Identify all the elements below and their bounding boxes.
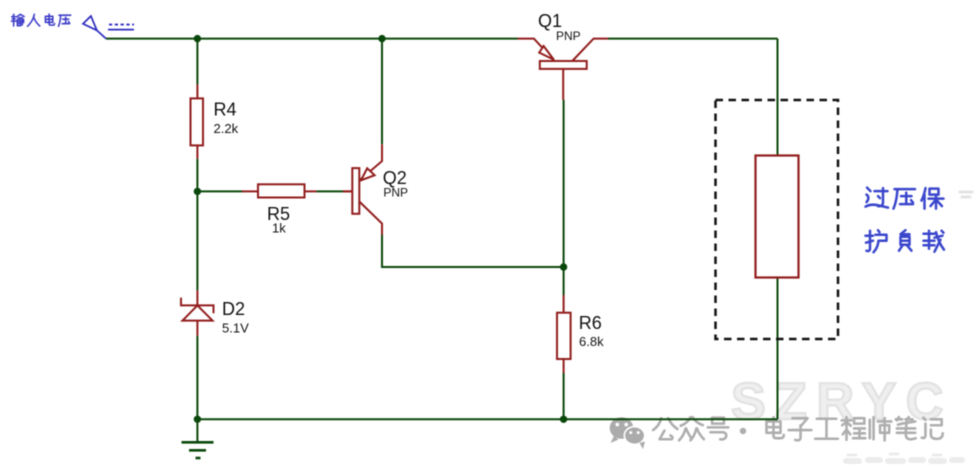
- resistor R5: [242, 184, 352, 197]
- wire R6 bottom: [563, 373, 565, 419]
- wire R5 right to Q2 base: [317, 190, 343, 192]
- svg-text:5.1V: 5.1V: [222, 321, 249, 336]
- ground: [182, 442, 214, 458]
- dashed load box: [716, 100, 839, 339]
- wire R4 bottom to node: [196, 159, 198, 192]
- transistor Q1: [518, 39, 608, 100]
- junction: R6 bottom / ground rail: [560, 416, 567, 423]
- wire Q1 base down: [563, 100, 565, 295]
- zener diode D2: [181, 290, 214, 335]
- wire load bottom: [777, 278, 779, 420]
- svg-text:R4: R4: [214, 100, 237, 120]
- watermark gray text: 公众号 · 电子工程师笔记: [653, 417, 728, 440]
- svg-text:Q1: Q1: [538, 11, 562, 31]
- svg-text:R6: R6: [579, 313, 602, 333]
- blue label: input voltage (hand-drawn CJK): [11, 14, 70, 26]
- wire R4 top: [196, 39, 198, 85]
- svg-text:PNP: PNP: [383, 185, 408, 199]
- load resistor body: [756, 156, 799, 278]
- watermark wechat icon: [610, 417, 645, 449]
- junction: input rail / R4 top: [194, 35, 201, 42]
- input port symbol (net 输入电压): [83, 16, 134, 39]
- wire top rail right: [608, 38, 778, 40]
- wire Q2 collector down and right: [382, 235, 564, 267]
- faint bottom-right marks: [846, 454, 962, 461]
- junction: Q2 collector / Q1 base / R6 node: [560, 263, 567, 270]
- wire load drop: [777, 39, 779, 156]
- wire D2 to ground: [196, 336, 198, 442]
- wire top rail left: [106, 38, 518, 40]
- wire bottom rail: [197, 418, 777, 420]
- svg-text:SZRYC: SZRYC: [731, 373, 953, 431]
- junction: R4 bottom / R5 / D2 node: [194, 188, 201, 195]
- resistor R6: [557, 295, 571, 373]
- svg-text:PNP: PNP: [556, 29, 581, 43]
- transistor Q2: [343, 144, 382, 235]
- svg-text:2.2k: 2.2k: [214, 121, 239, 136]
- wire Q2 emitter up: [381, 39, 383, 145]
- junction: input rail / Q2 emitter: [378, 35, 385, 42]
- junction: ground node: [194, 416, 201, 423]
- blue label: overvoltage protection load (hand-drawn CJK): [866, 188, 945, 253]
- svg-text:1k: 1k: [272, 221, 286, 236]
- svg-text:D2: D2: [222, 299, 245, 319]
- wire node to D2: [196, 191, 198, 290]
- wire R5 left: [197, 190, 242, 192]
- resistor R4: [191, 84, 204, 158]
- svg-text:6.8k: 6.8k: [579, 334, 604, 349]
